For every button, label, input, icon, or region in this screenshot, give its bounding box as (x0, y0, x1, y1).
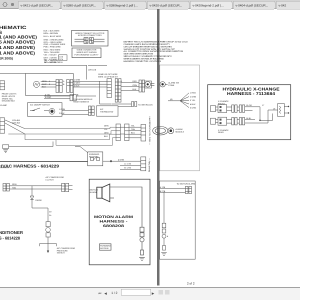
svg-text:v-0421-d.pdf (SECUR...: v-0421-d.pdf (SECUR... (21, 3, 54, 7)
svg-text:NC = N.CLSD: NC = N.CLSD (44, 61, 57, 64)
svg-text:TAN: TAN (12, 186, 16, 189)
svg-text:16 BL: 16 BL (246, 117, 252, 120)
svg-text:REAR: REAR (218, 131, 224, 134)
svg-text:GRN: GRN (42, 80, 47, 83)
svg-text:THERMOSTAT: THERMOSTAT (100, 110, 114, 113)
svg-text:2 GRN: 2 GRN (190, 95, 197, 98)
svg-text:GROUND BLK: GROUND BLK (2, 100, 16, 103)
svg-text:HEMATIC: HEMATIC (0, 25, 27, 30)
svg-text:3 YEL: 3 YEL (190, 99, 196, 102)
svg-text:v-042: v-042 (279, 3, 287, 7)
svg-text:10R 1CB: 10R 1CB (88, 68, 97, 71)
svg-text:MODULE: MODULE (176, 131, 185, 134)
svg-text:4 BLK: 4 BLK (190, 103, 196, 106)
svg-text:GRN: GRN (104, 124, 109, 127)
svg-text:ER 2005): ER 2005) (0, 57, 13, 61)
svg-text:BLU = BLUE WIRE: BLU = BLUE WIRE (44, 35, 62, 38)
svg-text:HARNESS CONNECTOR LOCATIONS: HARNESS CONNECTOR LOCATIONS (124, 60, 162, 63)
svg-text:1 GRN: 1 GRN (59, 108, 66, 111)
svg-text:1CB 40A: 1CB 40A (12, 119, 21, 122)
svg-text:BLU: BLU (131, 131, 135, 134)
svg-text:(4): (4) (170, 98, 173, 101)
svg-text:B– 2TB: B– 2TB (124, 167, 131, 170)
svg-text:SOME OF OPT WIRE: SOME OF OPT WIRE (98, 73, 118, 76)
svg-text:TAN: TAN (131, 128, 135, 131)
svg-text:3 BLK: 3 BLK (74, 84, 80, 87)
svg-text:GRN: GRN (133, 84, 138, 87)
svg-text:▶: ▶ (152, 291, 155, 295)
svg-text:4 GRN: 4 GRN (118, 158, 125, 161)
svg-text:A 1TB: A 1TB (160, 186, 166, 189)
svg-text:CONN: CONN (168, 84, 174, 87)
svg-text:ORG: ORG (104, 131, 109, 134)
svg-text:5 ORG: 5 ORG (45, 96, 52, 99)
svg-text:TO INTERLOCK: TO INTERLOCK (138, 104, 153, 107)
svg-text:6808208: 6808208 (103, 224, 124, 228)
svg-text:PNK = PINK WIRE: PNK = PINK WIRE (44, 46, 62, 49)
svg-text:A– 1TB: A– 1TB (124, 163, 131, 166)
svg-text:VIO = VIOLET: VIO = VIOLET (44, 53, 58, 56)
svg-text:v-0380legend-2.pdf (...: v-0380legend-2.pdf (... (107, 3, 138, 7)
svg-text:SWITCH: SWITCH (57, 252, 65, 255)
svg-text:CLUTCH: CLUTCH (46, 179, 55, 182)
svg-text:1 GRN: 1 GRN (74, 79, 81, 82)
svg-text:GRN: GRN (12, 183, 17, 186)
svg-text:TO MOTION ALARM: TO MOTION ALARM (177, 182, 196, 185)
svg-text:HARNESS - 7113684: HARNESS - 7113684 (227, 91, 276, 96)
svg-text:A/C ON/OFF SWITCH: A/C ON/OFF SWITCH (30, 104, 50, 107)
svg-text:2 BLK: 2 BLK (59, 112, 65, 115)
svg-text:15 OR: 15 OR (246, 104, 252, 107)
svg-text:MOTION: MOTION (100, 247, 109, 250)
svg-text:v-0420-d.pdf (SECUR...: v-0420-d.pdf (SECUR... (150, 3, 183, 7)
svg-text:DIODE: DIODE (36, 199, 43, 202)
svg-text:10 AMP: 10 AMP (0, 104, 8, 107)
svg-text:S - 6814228: S - 6814228 (0, 235, 21, 240)
svg-text:4 YEL: 4 YEL (45, 93, 51, 96)
svg-text:2CB 30A: 2CB 30A (12, 122, 21, 125)
svg-text:2 of 2: 2 of 2 (187, 281, 195, 285)
svg-text:RED: RED (133, 80, 138, 83)
svg-text:B 2TB: B 2TB (160, 190, 166, 193)
svg-text:1 RED: 1 RED (190, 92, 196, 95)
svg-text:BLK: BLK (104, 135, 108, 138)
svg-text:— 7/8 G TO X-CHANGE FRT: — 7/8 G TO X-CHANGE FRT (149, 116, 152, 145)
svg-text:FRONT: FRONT (218, 102, 226, 105)
svg-text:ALARM: ALARM (90, 191, 97, 194)
svg-text:5 ORG: 5 ORG (190, 106, 197, 109)
svg-text:HARNESS -: HARNESS - (100, 220, 129, 224)
svg-text:BLK: BLK (42, 86, 46, 89)
svg-text:⏮: ⏮ (98, 291, 101, 295)
svg-text:2 WHT: 2 WHT (74, 82, 81, 85)
svg-text:1 / 2: 1 / 2 (111, 291, 117, 295)
svg-text:REAR HARNESS: REAR HARNESS (73, 101, 89, 104)
svg-text:ACROSS CONNECTORS: ACROSS CONNECTORS (78, 34, 102, 37)
svg-text:v-0380-d.pdf (SECUR...: v-0380-d.pdf (SECUR... (64, 3, 97, 7)
svg-text:BRN = BROWN: BRN = BROWN (44, 32, 59, 35)
svg-text:v-0420legend-2.pdf (...: v-0420legend-2.pdf (... (193, 3, 224, 7)
svg-text:5 AND ABOVE): 5 AND ABOVE) (0, 40, 36, 45)
svg-text:FOR DRAWING CLARITY: FOR DRAWING CLARITY (75, 53, 100, 56)
svg-text:1 AND ABOVE): 1 AND ABOVE) (0, 50, 36, 55)
svg-text:MOTION ALARM: MOTION ALARM (94, 215, 133, 219)
svg-text:REVERSE: REVERSE (89, 155, 99, 158)
svg-text:WHT: WHT (42, 83, 47, 86)
svg-text:◀: ◀ (104, 291, 107, 295)
svg-text:v-0404-d.pdf (SECUR...: v-0404-d.pdf (SECUR... (236, 3, 269, 7)
svg-text:Diesel Only —: Diesel Only — (148, 157, 151, 172)
svg-text:A/C: A/C (100, 108, 104, 111)
svg-text:BLK: BLK (133, 88, 137, 91)
